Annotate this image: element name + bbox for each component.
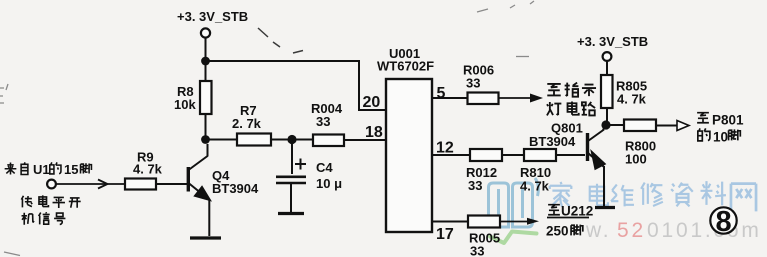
watermark logo book icon (489, 178, 539, 227)
svg-text:4. 7k: 4. 7k (617, 92, 647, 107)
wire R7 to node C (271, 139, 292, 141)
svg-text:33: 33 (466, 76, 480, 91)
scan noise marks (258, 28, 303, 53)
wire R800 to open arrow 至P801 (656, 121, 689, 131)
svg-text:8: 8 (716, 206, 732, 238)
wire R012 to R810 (502, 154, 524, 156)
resistor R005 (468, 216, 500, 257)
ground for Q4 (190, 236, 221, 239)
svg-text:4. 7k: 4. 7k (520, 179, 550, 194)
pin 5 stub (432, 97, 467, 99)
wire R9 to Q4 base (156, 183, 187, 185)
node A junction (201, 57, 210, 66)
resistor R810 (520, 149, 556, 194)
svg-text:10: 10 (713, 130, 728, 145)
resistor R805 (601, 61, 647, 121)
svg-text:33: 33 (470, 244, 484, 257)
power +3.3V_STB terminal (left) (177, 9, 248, 38)
svg-text:WT6702F: WT6702F (377, 59, 434, 74)
svg-text:15: 15 (64, 162, 78, 177)
svg-text:BT3904: BT3904 (529, 134, 576, 149)
svg-text:33: 33 (468, 178, 482, 193)
ground for Q801 (595, 206, 615, 209)
svg-text:BT3904: BT3904 (212, 181, 259, 196)
svg-text:U212: U212 (561, 204, 593, 219)
resistor R7 (232, 103, 271, 146)
wire terminal to node A (205, 38, 207, 61)
watermark url w.520101.com (585, 219, 762, 242)
capacitor C4 (276, 144, 342, 212)
svg-text:52: 52 (617, 219, 646, 242)
node D junction (R805/R800/Q801 collector) (601, 120, 610, 129)
destination label 至U212 250脚 (546, 204, 593, 239)
svg-text:20: 20 (363, 94, 381, 111)
svg-text:100: 100 (625, 152, 647, 167)
svg-text:0101.com: 0101.com (647, 219, 762, 242)
input label 来自U1的15脚 (5, 162, 92, 177)
op-amp U001 WT6702F IC box (377, 46, 434, 232)
wire R005 to arrow 至U212 (500, 218, 539, 225)
watermark text 家电维修资料网 (550, 181, 756, 211)
node C junction (R7/R004/C4) (287, 135, 296, 144)
svg-text:250: 250 (546, 224, 569, 239)
ground for C4 (278, 212, 304, 215)
transistor Q4 BT3904 (188, 144, 259, 236)
power +3.3V_STB terminal (right) (577, 34, 648, 61)
wire node C to R004 (292, 139, 313, 141)
destination label 至P801 的10脚 (697, 113, 744, 145)
wire input to R9 with open arrow (56, 180, 125, 189)
svg-text:33: 33 (316, 114, 330, 129)
svg-text:P801: P801 (712, 113, 744, 128)
destination label 至指示灯电路 (547, 83, 596, 116)
watermark logo green ribbon (490, 232, 537, 244)
svg-text:17: 17 (436, 226, 454, 243)
svg-text:U1: U1 (33, 162, 50, 177)
svg-text:12: 12 (436, 140, 454, 157)
wire node A to pin 20 of U001 (206, 61, 387, 110)
node B junction (R8/R7/Q4 collector) (201, 135, 210, 144)
svg-text:10 μ: 10 μ (316, 176, 342, 191)
resistor R004 (311, 101, 344, 146)
resistor R012 (466, 149, 502, 193)
svg-text:5: 5 (437, 85, 446, 102)
svg-text:18: 18 (365, 124, 383, 141)
resistor R006 (463, 63, 499, 105)
svg-text:2. 7k: 2. 7k (232, 116, 262, 131)
wire R810 to Q801 base (556, 154, 585, 156)
wire R006 to arrow 至指示灯电路 (499, 94, 544, 103)
pin 17 stub (432, 221, 468, 223)
wire node B to R7 (206, 139, 238, 141)
pin 12 stub (432, 154, 470, 156)
transistor Q801 BT3904 (529, 121, 606, 207)
input label 低电平开机信号 (21, 195, 80, 224)
resistor R8 (174, 61, 212, 136)
resistor R800 (624, 120, 656, 167)
svg-text:4. 7k: 4. 7k (133, 162, 163, 177)
resistor R9 (125, 150, 163, 190)
circled number 8 page mark (710, 206, 736, 238)
wire R004 to pin 18 of U001 (344, 139, 386, 141)
wire node D to R800 (606, 124, 624, 126)
svg-text:+3. 3V_STB: +3. 3V_STB (177, 9, 248, 24)
svg-text:+3. 3V_STB: +3. 3V_STB (577, 34, 648, 49)
svg-text:C4: C4 (316, 160, 333, 175)
svg-text:10k: 10k (174, 97, 196, 112)
input terminal circle (47, 180, 56, 189)
svg-text:w.: w. (585, 219, 611, 242)
